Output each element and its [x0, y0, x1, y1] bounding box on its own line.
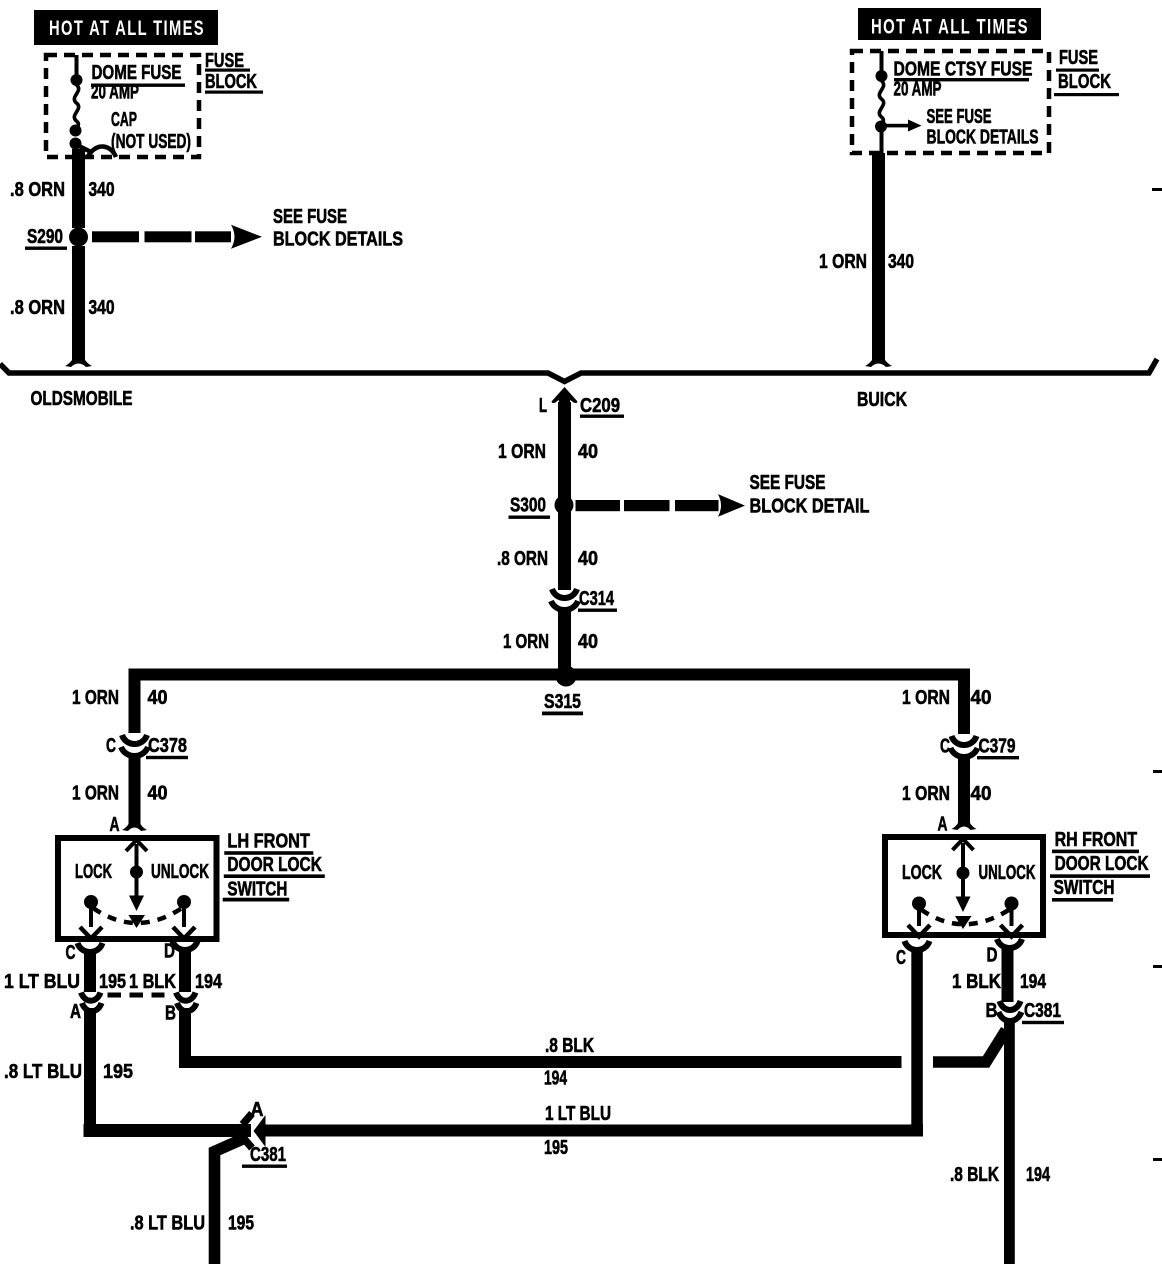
svg-text:194: 194: [1020, 971, 1047, 993]
wire .8 LT BLU elbow to C381: [90, 1124, 251, 1131]
svg-text:1 BLK: 1 BLK: [952, 971, 1001, 993]
svg-text:C379: C379: [979, 736, 1016, 758]
connector C314: [551, 589, 578, 610]
fuse block boundary (right, dashed): [852, 51, 1049, 153]
connector A (in-line halves): [81, 993, 102, 1012]
svg-text:B: B: [165, 1003, 176, 1025]
wire stub below fuse (right): [880, 130, 884, 153]
page tick marks: [1152, 188, 1162, 191]
svg-text:1 ORN: 1 ORN: [819, 251, 867, 273]
svg-text:C: C: [896, 947, 906, 969]
svg-text:CAP: CAP: [111, 109, 137, 131]
wire: body harness bus: [0, 359, 1157, 382]
wire .8 LT BLU 195 (down from A): [84, 1008, 96, 1130]
svg-text:S315: S315: [544, 691, 581, 713]
fuse DOME FUSE 20 AMP (left): [70, 74, 83, 137]
svg-text:1 BLK: 1 BLK: [129, 971, 176, 993]
wire 1 LT BLU 195 (LH C): [84, 949, 96, 992]
svg-text:40: 40: [971, 687, 992, 709]
svg-text:C381: C381: [250, 1144, 286, 1166]
label RH FRONT DOOR LOCK SWITCH: [1050, 829, 1150, 902]
label SEE FUSE BLOCK DETAIL: [750, 472, 870, 518]
svg-text:OLDSMOBILE: OLDSMOBILE: [31, 388, 133, 410]
wire 1 ORN 40 (to switch): [129, 755, 141, 820]
svg-text:SWITCH: SWITCH: [227, 879, 287, 901]
svg-text:BLOCK DETAIL: BLOCK DETAIL: [750, 496, 870, 518]
connector C378: [121, 735, 148, 756]
svg-text:LOCK: LOCK: [902, 862, 942, 884]
svg-text:SWITCH: SWITCH: [1054, 877, 1115, 899]
svg-text:.8 LT BLU: .8 LT BLU: [4, 1061, 82, 1083]
svg-text:1 LT BLU: 1 LT BLU: [4, 971, 80, 993]
UNLOCK contact (RH): [1001, 897, 1023, 937]
svg-text:194: 194: [1026, 1164, 1051, 1186]
svg-text:340: 340: [888, 251, 914, 273]
wire 1 LT BLU 195 (RH C down): [911, 947, 923, 1130]
svg-text:HOT AT ALL TIMES: HOT AT ALL TIMES: [871, 15, 1029, 39]
wire end bell into bus: [65, 352, 92, 367]
splice S315: [542, 666, 583, 716]
label FUSE BLOCK (left): [205, 50, 263, 94]
UNLOCK contact (LH): [173, 895, 195, 939]
svg-text:20 AMP: 20 AMP: [894, 79, 942, 101]
label C381: [1022, 1000, 1064, 1024]
svg-text:BLOCK: BLOCK: [205, 71, 257, 93]
svg-text:A: A: [70, 1001, 81, 1023]
connector C209 arrow into bus: [552, 387, 578, 403]
svg-text:C378: C378: [148, 735, 187, 757]
svg-text:40: 40: [578, 631, 598, 653]
svg-text:SEE FUSE: SEE FUSE: [927, 106, 992, 128]
wire 1 BLK 194 (LH D): [179, 947, 191, 992]
svg-text:194: 194: [195, 971, 223, 993]
wire .8 ORN 340 upper: [72, 149, 85, 228]
svg-text:40: 40: [578, 441, 598, 463]
svg-text:1 ORN: 1 ORN: [503, 631, 549, 653]
svg-text:C381: C381: [1024, 1000, 1061, 1022]
label C209: [580, 395, 624, 418]
svg-text:SEE FUSE: SEE FUSE: [273, 206, 347, 228]
svg-text:40: 40: [578, 548, 598, 570]
svg-text:20 AMP: 20 AMP: [91, 82, 139, 104]
svg-text:.8 LT BLU: .8 LT BLU: [130, 1213, 205, 1235]
wire 1 ORN 40 (left drop): [129, 674, 141, 733]
svg-text:DOOR LOCK: DOOR LOCK: [1055, 853, 1149, 875]
wire .8 LT BLU drop to actuators: [215, 1138, 247, 1264]
label DOME CTSY FUSE: [894, 59, 1033, 82]
svg-text:D: D: [987, 945, 998, 967]
svg-text:(NOT USED): (NOT USED): [111, 131, 191, 153]
svg-text:L: L: [539, 395, 547, 417]
svg-text:C314: C314: [579, 588, 615, 610]
wire end bell into RH switch: [952, 816, 977, 830]
wire .8 BLK 194 below C381: [1004, 1019, 1015, 1264]
svg-text:1 ORN: 1 ORN: [72, 687, 119, 709]
LOCK contact (RH): [908, 897, 930, 937]
label C379: [977, 736, 1019, 760]
wire stub into fuse (right): [880, 51, 884, 73]
LOCK contact (LH): [80, 895, 102, 939]
label DOME FUSE: [91, 62, 185, 87]
label C314: [578, 588, 617, 612]
svg-text:1 ORN: 1 ORN: [902, 783, 950, 805]
label SEE FUSE BLOCK DETAILS (left): [273, 206, 403, 251]
svg-text:BLOCK DETAILS: BLOCK DETAILS: [927, 127, 1039, 149]
switch common contact arrow (LH): [126, 840, 147, 928]
wire 1 BLK 194 (RH D down): [1002, 945, 1014, 1002]
svg-text:194: 194: [544, 1068, 568, 1090]
fuse DOME CTSY FUSE 20 AMP: [875, 70, 888, 133]
svg-text:DOOR LOCK: DOOR LOCK: [227, 854, 322, 876]
terminal cup C (RH): [905, 941, 930, 950]
wire stub into fuse: [75, 55, 79, 77]
svg-text:BLOCK DETAILS: BLOCK DETAILS: [273, 229, 403, 251]
fuse block boundary (left, dashed): [46, 55, 199, 157]
svg-text:195: 195: [99, 971, 126, 993]
power label HOT AT ALL TIMES (left): [34, 10, 218, 45]
svg-text:1 ORN: 1 ORN: [902, 687, 950, 709]
wire end bell into bus (right): [865, 352, 892, 367]
label C381: [242, 1144, 287, 1168]
connector C381 (left half): [243, 1114, 266, 1149]
svg-text:LOCK: LOCK: [75, 861, 112, 883]
wire 1 LT BLU 195 horizontal (from RH): [263, 1124, 917, 1131]
svg-text:.8 BLK: .8 BLK: [950, 1164, 999, 1186]
svg-text:DOME CTSY FUSE: DOME CTSY FUSE: [894, 59, 1033, 81]
svg-text:C209: C209: [580, 395, 620, 417]
wire 1 ORN 40 (to RH switch): [958, 755, 970, 819]
svg-text:BUICK: BUICK: [857, 389, 907, 411]
svg-text:A: A: [110, 814, 120, 836]
label C378: [146, 735, 188, 759]
connector C381 (right half): [999, 1001, 1022, 1021]
svg-text:1 ORN: 1 ORN: [498, 441, 546, 463]
cap stub (not used): [80, 146, 116, 157]
switch body LH: [58, 838, 217, 939]
svg-text:BLOCK: BLOCK: [1058, 71, 1111, 93]
switch body RH: [885, 837, 1043, 935]
switch common contact arrow (RH): [953, 839, 974, 929]
wire .8 BLK diagonal joint: [933, 1030, 1006, 1062]
wire 1 ORN 340: [872, 153, 885, 358]
svg-text:UNLOCK: UNLOCK: [979, 862, 1036, 884]
power label HOT AT ALL TIMES (right): [858, 8, 1041, 40]
svg-text:S300: S300: [510, 495, 546, 517]
svg-text:S290: S290: [27, 226, 63, 248]
svg-text:RH FRONT: RH FRONT: [1055, 829, 1138, 851]
svg-text:.8 ORN: .8 ORN: [10, 297, 65, 319]
svg-text:40: 40: [971, 783, 992, 805]
svg-text:.8 ORN: .8 ORN: [10, 179, 65, 201]
terminal cup C (LH): [78, 943, 103, 952]
svg-text:195: 195: [103, 1061, 133, 1083]
dashed arrow to fuse block details (left): [92, 225, 262, 249]
wire .8 ORN 40: [558, 510, 571, 590]
switch throw arc (LH, dashed): [93, 908, 182, 923]
splice S290: [25, 226, 88, 250]
svg-text:195: 195: [228, 1213, 254, 1235]
switch throw arc (RH, dashed): [921, 910, 1010, 925]
label SEE FUSE BLOCK DETAILS (right): [927, 106, 1039, 149]
svg-text:HOT AT ALL TIMES: HOT AT ALL TIMES: [49, 16, 205, 40]
connector B (in-line halves): [176, 993, 197, 1012]
wire 1 ORN 40 (right drop): [958, 674, 970, 734]
junction dot at cap tap: [70, 138, 82, 150]
svg-text:C: C: [106, 735, 116, 757]
svg-text:340: 340: [89, 297, 115, 319]
svg-text:.8 BLK: .8 BLK: [545, 1035, 594, 1057]
svg-text:B: B: [986, 1000, 998, 1022]
wire 1 ORN 40: [558, 402, 571, 500]
door boundary dashed line: [108, 993, 165, 998]
splice S300: [509, 495, 574, 519]
terminal cup D (RH): [997, 939, 1022, 948]
svg-text:1 LT BLU: 1 LT BLU: [545, 1103, 611, 1125]
terminal cup D (LH): [173, 941, 198, 950]
svg-text:.8 ORN: .8 ORN: [497, 548, 548, 570]
connector C379: [951, 736, 978, 757]
wire .8 BLK 194 horizontal run: [185, 1057, 902, 1063]
wire 1 ORN 40: [558, 608, 571, 670]
wire .8 ORN 340 lower: [72, 246, 85, 358]
svg-text:340: 340: [89, 179, 115, 201]
wire: S315 distribution bus: [135, 675, 965, 681]
svg-text:C: C: [940, 736, 950, 758]
svg-text:1 ORN: 1 ORN: [72, 783, 119, 805]
svg-text:40: 40: [148, 783, 168, 805]
svg-text:LH FRONT: LH FRONT: [227, 831, 310, 853]
label FUSE BLOCK (right): [1054, 47, 1119, 96]
dashed arrow to fuse block detail: [576, 494, 746, 517]
svg-text:FUSE: FUSE: [1059, 47, 1098, 69]
svg-text:UNLOCK: UNLOCK: [151, 861, 209, 883]
wire end bell into LH switch: [122, 817, 147, 831]
svg-text:SEE FUSE: SEE FUSE: [750, 472, 826, 494]
label LH FRONT DOOR LOCK SWITCH: [223, 831, 325, 902]
svg-text:A: A: [938, 814, 948, 836]
svg-text:C: C: [66, 942, 76, 964]
svg-text:195: 195: [544, 1137, 568, 1159]
wire .8 BLK 194 (down from B): [179, 1008, 191, 1060]
svg-text:40: 40: [148, 687, 168, 709]
arrow to see fuse block details (right): [886, 120, 922, 132]
